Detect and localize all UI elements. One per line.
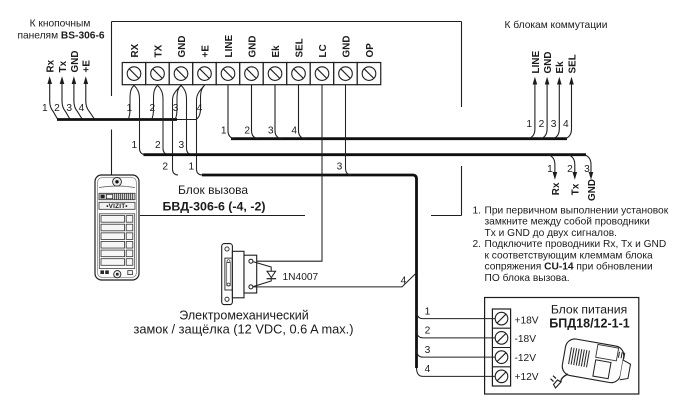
terminal block of call unit (11 screw terminals) xyxy=(122,34,381,84)
panel VIZIT logo plate xyxy=(99,202,135,210)
svg-text:2: 2 xyxy=(539,119,545,130)
lock terminal + xyxy=(249,259,253,263)
svg-text:2: 2 xyxy=(162,161,168,172)
wire 4 from terminal +E to left cable xyxy=(197,85,205,119)
arrow up to switching blocks, wire GND xyxy=(539,51,554,138)
svg-text:1.: 1. xyxy=(473,206,482,217)
svg-text:•VIZIT•: •VIZIT• xyxy=(106,203,128,210)
wire 2 from terminal TX to left cable xyxy=(149,85,157,119)
svg-text:GND: GND xyxy=(341,35,352,57)
svg-text:+E: +E xyxy=(200,45,211,58)
wire 3 from terminal Ek to switching cable xyxy=(268,85,282,139)
svg-text:4: 4 xyxy=(79,103,85,114)
wire 4 from power cable to PSU +12V xyxy=(417,364,496,376)
arrow up to switching blocks, wire LINE xyxy=(526,50,541,138)
terminal +E (pos 4) xyxy=(193,63,217,85)
panel bottom mic and screw xyxy=(100,270,104,274)
PSU power plug and cord xyxy=(551,374,569,388)
wire 3 from terminal GND down to CU-14 cable xyxy=(178,85,192,154)
svg-text:3: 3 xyxy=(551,119,557,130)
terminal OP (pos 11) xyxy=(357,63,381,85)
svg-text:4: 4 xyxy=(291,126,297,137)
panel buttons (6) xyxy=(99,214,134,269)
svg-text:Блок питания: Блок питания xyxy=(551,303,627,317)
PSU adapter 3D drawing xyxy=(561,337,633,385)
svg-text:Rx: Rx xyxy=(551,182,562,195)
svg-text:+12V: +12V xyxy=(515,372,539,383)
svg-text:1: 1 xyxy=(221,126,227,137)
terminal LC (pos 9) xyxy=(310,63,334,85)
svg-text:+18V: +18V xyxy=(515,316,539,327)
svg-text:4: 4 xyxy=(401,276,407,287)
arrow down to CU-14, wire GND xyxy=(584,155,598,201)
adapter side vents xyxy=(618,352,624,359)
arrow up to switching blocks, wire SEL xyxy=(563,54,578,139)
svg-text:Tx: Tx xyxy=(58,60,69,72)
svg-text:Блок вызова: Блок вызова xyxy=(178,183,248,197)
arrow up to button panels, wire GND xyxy=(66,50,82,119)
svg-text:GND: GND xyxy=(587,179,598,201)
arrow up to button panels, wire +E xyxy=(79,60,95,119)
call-block unit box БВД-306-6 outline xyxy=(112,22,462,216)
svg-text:Tx и GND до двух сигналов.: Tx и GND до двух сигналов. xyxy=(485,228,618,239)
cable to button panels (thick) xyxy=(57,118,177,121)
svg-text:GND: GND xyxy=(543,51,554,73)
svg-text:GND: GND xyxy=(70,50,81,72)
svg-text:2: 2 xyxy=(425,326,431,337)
svg-text:К блокам коммутации: К блокам коммутации xyxy=(505,19,608,31)
wire 1 from terminal RX down to CU-14 cable xyxy=(131,85,145,154)
svg-text:3: 3 xyxy=(66,103,72,114)
panel camera xyxy=(113,177,122,186)
svg-text:-12V: -12V xyxy=(515,353,537,364)
wire 3 from power cable to PSU -12V xyxy=(417,345,496,357)
wire 2 from terminal GND to switching cable xyxy=(244,85,258,139)
wire from terminal LC to lock xyxy=(253,85,322,261)
svg-text:Ek: Ek xyxy=(271,45,282,58)
wire 1 from power cable to PSU +18V xyxy=(417,306,496,318)
svg-text:Электромеханический: Электромеханический xyxy=(179,309,308,323)
wire 2 from power cable to PSU -18V xyxy=(417,326,496,338)
adapter clip xyxy=(620,360,631,381)
svg-text:LINE: LINE xyxy=(224,34,235,57)
svg-text:Rx: Rx xyxy=(46,59,57,72)
lock screw holes xyxy=(225,247,229,251)
svg-text:TX: TX xyxy=(153,44,164,57)
svg-text:2: 2 xyxy=(54,103,60,114)
svg-text:1: 1 xyxy=(131,140,137,151)
svg-text:LINE: LINE xyxy=(531,50,542,73)
svg-text:панелям BS-306-6: панелям BS-306-6 xyxy=(17,31,104,42)
svg-text:БВД-306-6 (-4, -2): БВД-306-6 (-4, -2) xyxy=(163,200,266,214)
svg-text:1: 1 xyxy=(126,103,132,114)
wire 1 from terminal LINE to switching cable xyxy=(221,85,235,139)
svg-text:3: 3 xyxy=(178,140,184,151)
terminal GND (pos 3) xyxy=(169,63,193,85)
svg-text:GND: GND xyxy=(247,35,258,57)
svg-text:3: 3 xyxy=(337,162,343,173)
terminal Ek (pos 7) xyxy=(263,63,287,85)
svg-text:замкните между собой проводник: замкните между собой проводники xyxy=(485,216,650,228)
svg-text:+E: +E xyxy=(82,60,93,73)
svg-text:2: 2 xyxy=(244,126,250,137)
terminal RX (pos 1) xyxy=(122,63,146,85)
svg-text:4: 4 xyxy=(197,103,203,114)
svg-text:2: 2 xyxy=(155,140,161,151)
svg-text:SEL: SEL xyxy=(567,54,578,73)
wire 4 from terminal SEL to switching cable xyxy=(291,85,305,139)
svg-text:ПО блока вызова.: ПО блока вызова. xyxy=(485,272,570,284)
svg-text:1: 1 xyxy=(547,164,553,175)
adapter label plate xyxy=(596,344,619,360)
wire 2 from terminal TX down to CU-14 cable xyxy=(155,85,169,154)
svg-text:3: 3 xyxy=(173,103,179,114)
wire 3 from terminal GND to power cable xyxy=(337,85,351,175)
arrow up to button panels, wire Rx xyxy=(42,59,58,119)
svg-text:3: 3 xyxy=(425,345,431,356)
arrow up to button panels, wire Tx xyxy=(54,60,70,119)
terminal TX (pos 2) xyxy=(146,63,170,85)
diode VD1 1N4007 across lock xyxy=(253,262,319,287)
lock terminal - xyxy=(249,285,253,289)
svg-text:-18V: -18V xyxy=(515,334,537,345)
svg-text:4: 4 xyxy=(425,364,431,375)
power supply unit box БПД18/12-1-1 xyxy=(485,298,639,395)
svg-text:Ek: Ek xyxy=(555,61,566,74)
svg-text:к соответствующим клеммам блок: к соответствующим клеммам блока xyxy=(485,249,654,261)
wire 1 from terminal RX to left cable xyxy=(126,85,134,119)
wire 1 from terminal +E down to power cable xyxy=(188,85,204,175)
terminal LINE (pos 5) xyxy=(216,63,240,85)
svg-text:БПД18/12-1-1: БПД18/12-1-1 xyxy=(549,317,629,331)
svg-text:OP: OP xyxy=(365,43,376,58)
svg-text:3: 3 xyxy=(268,126,274,137)
svg-text:SEL: SEL xyxy=(294,38,305,57)
arrow down to CU-14, wire Tx xyxy=(567,155,582,196)
electromechanical lock (door strike) xyxy=(222,244,257,305)
cable to switching blocks (thick) xyxy=(231,137,567,140)
cable Rx/Tx/GND to CU-14 (thick) xyxy=(144,153,587,156)
svg-text:1: 1 xyxy=(42,103,48,114)
svg-text:2: 2 xyxy=(149,103,155,114)
adapter socket recess xyxy=(593,360,611,379)
svg-text:LC: LC xyxy=(318,44,329,57)
wire 4 from lock to +12V xyxy=(253,273,417,287)
svg-text:4: 4 xyxy=(563,119,569,130)
installation notes xyxy=(473,206,669,284)
power cable to PSU (thick, corner down) xyxy=(202,175,417,368)
terminal SEL (pos 8) xyxy=(287,63,311,85)
VIZIT door panel drawing xyxy=(95,175,139,280)
svg-text:К кнопочным: К кнопочным xyxy=(30,19,91,30)
svg-text:2.: 2. xyxy=(473,239,482,250)
wire 3 from terminal GND to left cable xyxy=(173,85,181,119)
lock latch xyxy=(225,258,232,290)
svg-text:GND: GND xyxy=(177,35,188,57)
svg-text:RX: RX xyxy=(130,43,141,57)
arrow down to CU-14, wire Rx xyxy=(547,155,562,196)
svg-text:Подключите проводники Rx, Tx и: Подключите проводники Rx, Tx и GND xyxy=(485,239,667,250)
svg-text:При первичном выполнении устан: При первичном выполнении установок xyxy=(485,206,669,217)
lock body xyxy=(232,251,244,297)
svg-text:3: 3 xyxy=(584,164,590,175)
panel speaker grille xyxy=(99,193,135,199)
wire 2 from terminal GND down to power cable xyxy=(162,85,181,175)
svg-text:1N4007: 1N4007 xyxy=(283,272,319,283)
PSU terminal -12V xyxy=(495,351,508,364)
PSU terminal +18V xyxy=(495,312,508,325)
adapter vents xyxy=(569,347,590,367)
PSU terminal strip xyxy=(492,309,538,386)
terminal GND (pos 6) xyxy=(240,63,264,85)
terminal GND (pos 10) xyxy=(334,63,358,85)
svg-text:1: 1 xyxy=(526,119,532,130)
arrow up to switching blocks, wire Ek xyxy=(551,61,566,139)
svg-text:сопряжения CU-14 при обновлени: сопряжения CU-14 при обновлении xyxy=(485,261,653,273)
svg-text:1: 1 xyxy=(425,306,431,317)
svg-text:замок / защёлка (12 VDC, 0.6 A: замок / защёлка (12 VDC, 0.6 A max.) xyxy=(133,322,353,337)
svg-text:1: 1 xyxy=(188,161,194,172)
PSU terminal +12V xyxy=(495,370,508,383)
svg-text:2: 2 xyxy=(567,164,573,175)
svg-text:Tx: Tx xyxy=(571,183,582,195)
PSU terminal -18V xyxy=(495,332,508,345)
